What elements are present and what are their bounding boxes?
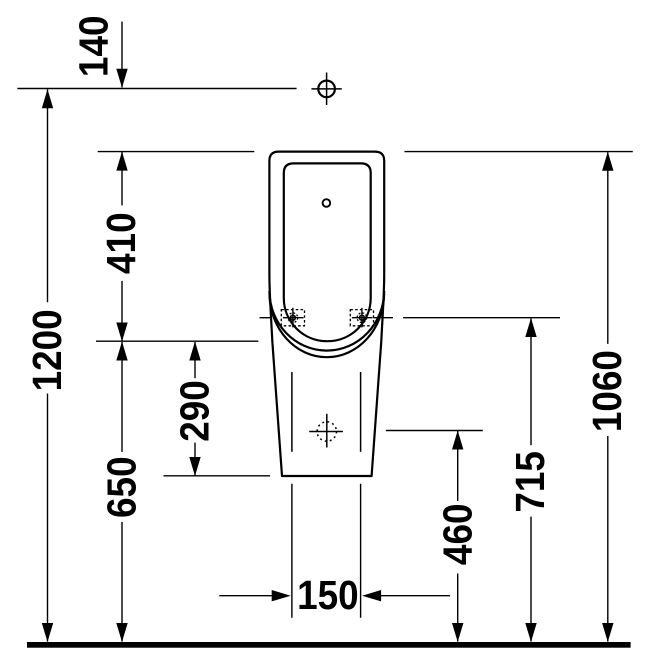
dimension 140 arrow: [116, 69, 127, 88]
fixing hole right dashed box: [350, 310, 373, 326]
urinal inner rim: [284, 163, 371, 341]
bowl lip upper curve: [269, 291, 384, 351]
fixing hole left dashed circle: [288, 313, 298, 323]
fixing hole right dashed circle: [357, 313, 367, 323]
dimension 140 line: [121, 22, 123, 88]
svg-text:460: 460: [436, 504, 481, 566]
fixing hole left center ring: [291, 315, 296, 320]
floor line: [27, 642, 631, 648]
siphon bottom reference line: [164, 475, 271, 477]
dimension 460 top arrow: [452, 431, 463, 450]
dimension 150 left arrow: [272, 590, 291, 601]
dimension 1060 line: [607, 152, 609, 641]
dimension 410 line: [121, 152, 123, 341]
dimension 715 top arrow: [525, 318, 536, 337]
svg-text:650: 650: [100, 456, 145, 518]
dimension 150 right line: [367, 595, 450, 597]
urinal top reference line right: [405, 151, 633, 153]
dimension 150 left line: [219, 595, 285, 597]
dimension 715 line: [530, 318, 532, 641]
wall reference line (1200 level): [17, 88, 296, 90]
flush pipe crosshair: [311, 73, 341, 106]
urinal top reference line left: [98, 151, 255, 153]
dimension 290 line: [194, 342, 196, 476]
dimension 410 top arrow: [116, 152, 127, 171]
dimension 1060 top arrow: [602, 152, 613, 171]
rim level tick line (650 level): [96, 340, 258, 342]
svg-text:1200: 1200: [25, 309, 70, 391]
dimension 1200 bottom arrow: [42, 623, 53, 642]
svg-text:410: 410: [99, 212, 144, 274]
dimension 410 bottom arrow: [116, 323, 127, 342]
dimension 650 line: [121, 342, 123, 642]
dimension 460 line: [457, 431, 459, 642]
svg-text:715: 715: [508, 451, 553, 513]
dimension 1060 bottom arrow: [602, 623, 613, 642]
siphon inner line right: [360, 372, 362, 452]
dimension 1200 top arrow: [42, 89, 53, 108]
fixing hole left cross: [283, 308, 304, 328]
dimension 290 top arrow: [189, 342, 200, 361]
dimension 650 bottom arrow: [116, 623, 127, 642]
dimension 290 bottom arrow: [189, 457, 200, 476]
svg-text:290: 290: [173, 380, 218, 442]
bowl lip lower curve: [270, 294, 385, 357]
outlet level reference line (460 level): [386, 430, 483, 432]
dimension 650 top arrow: [116, 342, 127, 361]
svg-text:140: 140: [72, 16, 117, 78]
outlet crosshair dashed circle: [317, 422, 336, 441]
water inlet hole: [323, 199, 331, 207]
outlet crosshair cross: [309, 414, 343, 448]
urinal outer silhouette: [269, 152, 384, 476]
svg-text:150: 150: [297, 573, 359, 618]
svg-text:1060: 1060: [585, 350, 630, 432]
fixing level reference line left: [260, 317, 273, 319]
fixing level reference line right (715 level): [374, 317, 394, 319]
dimension 460 bottom arrow: [452, 623, 463, 642]
siphon inner line left: [291, 372, 293, 452]
fixing hole left dashed box: [281, 310, 304, 326]
dimension 1200 line: [47, 89, 49, 641]
fixing hole right center ring: [360, 315, 365, 320]
outlet extension line left: [291, 484, 293, 618]
dimension 150 right arrow: [362, 590, 381, 601]
dimension 715 bottom arrow: [525, 623, 536, 642]
fixing hole right cross: [352, 308, 373, 328]
outlet extension line right: [360, 484, 362, 618]
